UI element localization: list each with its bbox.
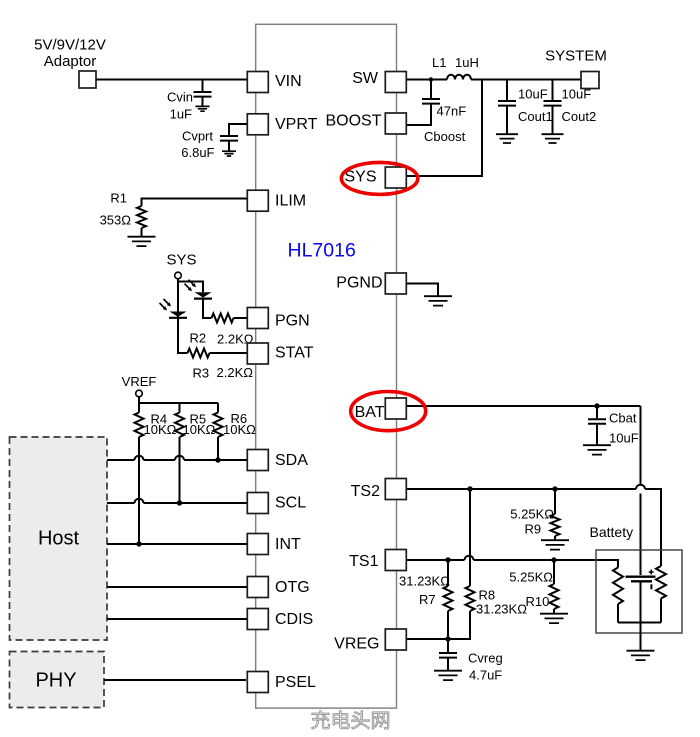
svg-text:10KΩ: 10KΩ <box>183 422 216 437</box>
svg-text:PGND: PGND <box>336 275 382 292</box>
svg-text:VREF: VREF <box>122 374 157 389</box>
wire VPRT to Cvprt <box>229 124 247 135</box>
svg-text:Host: Host <box>38 528 80 550</box>
svg-text:1uH: 1uH <box>455 55 479 70</box>
svg-text:Cvin: Cvin <box>167 90 193 105</box>
ground Cvreg <box>434 671 462 680</box>
svg-text:6.8uF: 6.8uF <box>181 145 214 160</box>
ground R9 <box>541 540 569 549</box>
svg-text:Cout2: Cout2 <box>562 109 597 124</box>
watermark <box>311 711 388 729</box>
junction TS2/R9 <box>552 486 557 491</box>
junction SDA/R6 <box>215 457 220 462</box>
pin PSEL <box>247 672 268 693</box>
capacitor Cvprt <box>220 136 238 141</box>
capacitor Cbat 10uF <box>596 406 598 418</box>
highlight ellipse SYS <box>341 162 417 194</box>
svg-text:HL7016: HL7016 <box>288 240 356 262</box>
svg-text:47nF: 47nF <box>437 104 467 119</box>
capacitor Cvreg 4.7uF <box>447 639 449 652</box>
svg-text:5.25KΩ: 5.25KΩ <box>509 570 553 585</box>
junction Cboost <box>429 77 433 81</box>
svg-text:R8: R8 <box>479 588 496 603</box>
pin TS1 <box>385 550 406 571</box>
pin INT <box>247 534 268 555</box>
svg-text:SCL: SCL <box>275 495 306 512</box>
wire SDA (hops R4,R5; junction R6) <box>107 459 135 461</box>
svg-text:Cvprt: Cvprt <box>182 129 213 144</box>
svg-text:VREG: VREG <box>334 636 379 653</box>
wire SYS node down from L1 output <box>405 80 482 177</box>
svg-text:Adaptor: Adaptor <box>44 53 97 70</box>
resistor R8 31.23K <box>469 489 471 586</box>
wire L1 to SYSTEM <box>471 79 581 81</box>
wire TS2 (hop over BAT wire) <box>407 488 636 490</box>
minus mark <box>650 584 652 589</box>
resistor R7 31.23K <box>447 560 449 586</box>
wire D2 to R3 <box>178 318 188 353</box>
svg-text:BAT: BAT <box>355 404 385 421</box>
wire SYS down and tee <box>177 279 179 353</box>
ground R1 <box>128 237 156 246</box>
resistor to PGN (R2) <box>212 314 234 323</box>
svg-text:INT: INT <box>275 536 301 553</box>
ground R10 <box>540 614 568 623</box>
ground Cout2 <box>542 134 564 143</box>
wire SCL (hop R4; junction R5) <box>107 502 135 504</box>
pin STAT <box>247 343 268 364</box>
pin SW <box>385 72 406 93</box>
ground Cbat <box>583 445 611 454</box>
svg-text:Cvreg: Cvreg <box>468 651 503 666</box>
resistor R10 5.25K <box>553 560 555 584</box>
thermistor right in battery <box>656 566 666 599</box>
pin SYS <box>385 167 406 188</box>
svg-text:5.25KΩ: 5.25KΩ <box>510 507 554 522</box>
svg-text:TS2: TS2 <box>351 483 380 500</box>
resistor R3 2.2K <box>188 349 210 358</box>
svg-text:R3: R3 <box>193 366 210 381</box>
resistor R9 5.25K <box>554 489 556 514</box>
svg-text:10uF: 10uF <box>518 87 548 102</box>
wire PSEL <box>104 679 246 681</box>
svg-text:R9: R9 <box>525 522 542 537</box>
battery bottom wire <box>618 622 661 624</box>
junction VREG/Cvreg <box>445 636 450 641</box>
svg-text:R2: R2 <box>190 331 207 346</box>
svg-text:SW: SW <box>352 70 379 87</box>
capacitor Cout1 <box>506 80 508 101</box>
Host block <box>10 437 108 640</box>
svg-text:5V/9V/12V: 5V/9V/12V <box>34 37 106 54</box>
wire BAT down to battery plus <box>640 406 642 485</box>
svg-text:4.7uF: 4.7uF <box>469 668 502 683</box>
wire SW to L1 <box>407 79 447 81</box>
wire PGND to ground <box>407 284 438 297</box>
resistor R1 353ohm <box>137 206 146 228</box>
svg-text:OTG: OTG <box>275 579 310 596</box>
LED D1 (to PGN) <box>189 280 194 285</box>
svg-text:SYS: SYS <box>344 168 376 185</box>
wire ILIM to R1 <box>142 199 248 207</box>
highlight ellipse BAT <box>351 392 426 431</box>
svg-text:R10: R10 <box>526 594 550 609</box>
wire INT (junction R4) <box>107 543 247 545</box>
svg-text:Cbat: Cbat <box>609 411 637 426</box>
svg-text:PHY: PHY <box>35 670 76 692</box>
wire R6 vertical down to SDA <box>217 437 219 460</box>
ground battery <box>627 651 655 660</box>
ground Cout1 <box>496 134 518 143</box>
pin VIN <box>247 72 268 93</box>
svg-text:353Ω: 353Ω <box>100 213 132 228</box>
svg-text:10KΩ: 10KΩ <box>144 422 177 437</box>
battery cell <box>626 576 656 578</box>
svg-text:R7: R7 <box>419 592 436 607</box>
junction TS1/R10 <box>551 557 556 562</box>
svg-text:SYSTEM: SYSTEM <box>545 48 607 65</box>
wire R5 vertical down to SCL <box>179 437 181 503</box>
svg-text:VPRT: VPRT <box>275 116 318 133</box>
svg-text:SDA: SDA <box>275 452 308 469</box>
pin SDA <box>247 450 268 471</box>
wire battery to ground <box>640 623 642 651</box>
pin TS2 <box>385 479 406 500</box>
ground Cvprt <box>222 151 236 156</box>
svg-text:PSEL: PSEL <box>275 674 316 691</box>
thermistor left in battery <box>613 568 623 604</box>
junction TS1/R7 <box>445 557 450 562</box>
pin ILIM <box>247 190 268 211</box>
wire CDIS <box>107 618 247 620</box>
plus sign <box>649 570 654 575</box>
svg-text:1uF: 1uF <box>170 107 192 122</box>
wire OTG <box>107 586 247 588</box>
svg-text:10KΩ: 10KΩ <box>223 422 256 437</box>
svg-text:Battety: Battety <box>590 524 634 540</box>
svg-text:BOOST: BOOST <box>325 113 381 130</box>
wire adaptor to VIN <box>96 79 247 81</box>
wire VREG <box>407 638 470 640</box>
pin SCL <box>247 493 268 514</box>
svg-text:31.23KΩ: 31.23KΩ <box>399 574 450 589</box>
pin BOOST <box>385 113 406 134</box>
pin VPRT <box>247 114 268 135</box>
op-amp U1 HL7016 IC body <box>256 24 397 708</box>
ground Cvin <box>196 106 210 111</box>
pin BAT <box>385 398 406 419</box>
pin OTG <box>247 577 268 598</box>
resistor R5 10K <box>175 413 184 438</box>
svg-text:STAT: STAT <box>275 345 314 362</box>
svg-text:ILIM: ILIM <box>275 193 306 210</box>
svg-text:CDIS: CDIS <box>275 611 313 628</box>
svg-text:SYS: SYS <box>166 252 196 269</box>
junction INT/R4 <box>136 541 141 546</box>
svg-text:Cout1: Cout1 <box>518 109 553 124</box>
svg-text:TS1: TS1 <box>349 553 378 570</box>
pin PGN <box>247 308 268 329</box>
svg-text:L1: L1 <box>432 55 446 70</box>
wire BAT to battery <box>407 405 641 407</box>
pin CDIS <box>247 609 268 630</box>
capacitor Cboost 47nF <box>430 80 432 99</box>
PHY block <box>10 652 105 708</box>
capacitor Cvin <box>202 80 204 92</box>
pin VREG <box>385 629 406 650</box>
junction SCL/R5 <box>177 500 182 505</box>
wire VREF rail <box>139 397 218 403</box>
wire TS1 (hop over R8 vertical) <box>407 559 465 561</box>
capacitor Cout2 <box>552 80 554 101</box>
svg-text:PGN: PGN <box>275 313 310 330</box>
svg-text:2.2KΩ: 2.2KΩ <box>217 365 254 380</box>
resistor R4 10K <box>135 413 144 438</box>
svg-text:31.23KΩ: 31.23KΩ <box>476 602 527 617</box>
svg-text:10uF: 10uF <box>609 431 639 446</box>
ground PGND <box>424 296 452 305</box>
wire R4 vertical down to INT <box>138 437 140 544</box>
svg-text:R1: R1 <box>110 191 127 206</box>
junction Cbat <box>594 403 599 408</box>
junction TS2/R8 <box>467 486 472 491</box>
pin PGND <box>385 273 406 294</box>
svg-text:VIN: VIN <box>275 73 302 90</box>
LED D2 (to STAT) <box>164 299 169 304</box>
resistor R6 10K <box>214 413 223 438</box>
svg-text:Cboost: Cboost <box>424 129 466 144</box>
